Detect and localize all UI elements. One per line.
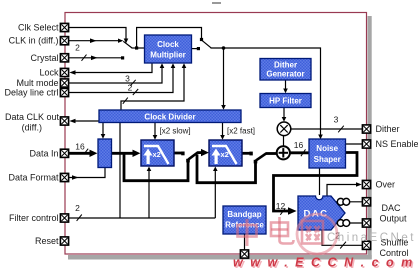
- wire: noise shaper to DAC: [319, 169, 321, 196]
- switch S3 (filter1 bypass): [188, 149, 209, 160]
- bus: filter1 bypass loop: [124, 154, 190, 180]
- block: interpolation filter 2 [x2 fast]: [209, 140, 242, 166]
- pin: Data CLK out: [60, 117, 68, 125]
- svg-text:CLK in (diff.): CLK in (diff.): [9, 36, 59, 46]
- wire: Clk Select to switch control: [69, 28, 128, 44]
- svg-text:Data CLK out: Data CLK out: [5, 112, 60, 122]
- svg-text:x2: x2: [153, 150, 161, 159]
- DAC output symbol 2: [337, 220, 349, 227]
- pin: Delay line ctrl: [60, 88, 68, 96]
- wire: filter control riser to divider: [119, 123, 121, 219]
- wire: dither generator to HP filter: [283, 81, 288, 94]
- watermark chinese char wang: [302, 221, 323, 244]
- wire: Filter control line: [69, 203, 215, 221]
- svg-text:Reset: Reset: [35, 236, 59, 246]
- pin: DAC Output 2: [362, 219, 370, 227]
- svg-text:Multiplier: Multiplier: [150, 51, 186, 60]
- watermark chinese char zhong: [238, 219, 257, 246]
- watermark seal circle: [297, 214, 337, 254]
- wire: bandgap to bottom pin: [244, 235, 246, 251]
- pin: Clk Select: [60, 23, 68, 31]
- wire: NS Enable: [346, 143, 363, 145]
- svg-text:Output: Output: [380, 214, 408, 224]
- svg-text:Noise: Noise: [316, 144, 338, 153]
- svg-text:Shaper: Shaper: [314, 155, 341, 164]
- border shadow right: [368, 16, 372, 259]
- svg-text:Filter control: Filter control: [9, 213, 59, 223]
- wire: filter control riser to filter2: [213, 167, 218, 219]
- block: Bandgap Reference: [223, 206, 266, 234]
- svg-text:ChinaECNet: ChinaECNet: [327, 232, 416, 244]
- wire: [x2 fast] clock drop: [220, 123, 255, 140]
- wire: Crystal to switch contact: [69, 43, 124, 61]
- switch S1 (clock source select): [123, 41, 144, 49]
- svg-text:2: 2: [75, 43, 80, 53]
- block: Noise Shaper: [309, 139, 346, 168]
- node: clock divider tap: [222, 46, 226, 50]
- wire: Dither pin line: [291, 115, 362, 133]
- bus: latch to filter1: [112, 150, 141, 157]
- pin: bandgap bottom: [240, 250, 248, 258]
- svg-text:Clock: Clock: [157, 40, 179, 49]
- pin: Over: [362, 180, 370, 188]
- svg-text:NS Enable: NS Enable: [376, 139, 418, 149]
- pin: DAC Output 1: [362, 198, 370, 206]
- border shadow bottom: [68, 255, 372, 260]
- svg-text:Dither: Dither: [274, 61, 297, 70]
- block: HP Filter: [260, 94, 311, 108]
- wire: Shuffle Control: [322, 231, 362, 249]
- svg-text:Bandgap: Bandgap: [227, 210, 261, 219]
- svg-text:HP Filter: HP Filter: [269, 97, 302, 106]
- wire: divider clock to input latch: [101, 123, 106, 139]
- pin: Dither: [362, 125, 370, 133]
- block: input latch: [98, 139, 112, 168]
- wire: HP filter to multiplier node: [282, 108, 287, 122]
- pin: NS Enable: [362, 140, 370, 148]
- switch S4 (filter2 bypass): [256, 153, 277, 160]
- block: Clock Multiplier: [145, 35, 192, 63]
- block: interpolation filter 1 [x2 slow]: [141, 140, 174, 166]
- top small dash: [212, 2, 221, 4]
- node: bypass contact: [200, 38, 203, 41]
- pin: Data Format: [60, 173, 68, 181]
- svg-text:Mult mode: Mult mode: [16, 78, 58, 88]
- wire: filter control riser to filter1: [147, 167, 152, 219]
- watermark chinese char dian: [271, 217, 294, 244]
- bus: noise shaper feedback to DAC: [274, 153, 358, 215]
- wire: clock tap down to divider: [221, 48, 226, 110]
- bus: filter2 bypass loop: [197, 154, 257, 182]
- switch S2 (multiplier bypass select): [192, 40, 212, 50]
- bus: filter2 output stub: [242, 152, 253, 156]
- multiplier node (dither): [277, 122, 291, 136]
- svg-text:16: 16: [75, 141, 85, 151]
- svg-text:DAC: DAC: [382, 203, 402, 213]
- DAC output symbol 1: [337, 198, 349, 205]
- wire: divider to multiplier feedback: [121, 63, 186, 110]
- svg-text:(diff.): (diff.): [22, 123, 42, 133]
- svg-text:3: 3: [334, 115, 339, 125]
- wire: Mult mode to multiplier: [69, 63, 164, 86]
- svg-text:Dither: Dither: [376, 124, 400, 134]
- bus: filter1 output stub: [174, 152, 185, 156]
- svg-text:Crystal: Crystal: [30, 53, 58, 63]
- svg-text:Clock Divider: Clock Divider: [144, 112, 195, 121]
- chip border frame: [65, 13, 367, 255]
- svg-text:Lock: Lock: [39, 68, 59, 78]
- bus: adder to noise shaper: [290, 140, 309, 156]
- svg-text:2: 2: [128, 83, 133, 93]
- wire: Over output: [327, 182, 362, 195]
- wire: Lock output from multiplier: [69, 63, 152, 75]
- pin: CLK in: [60, 37, 68, 45]
- block: DAC: [298, 196, 345, 230]
- svg-text:www.ECCN.com: www.ECCN.com: [233, 256, 418, 270]
- adder node: [277, 146, 290, 159]
- svg-text:Delay line ctrl: Delay line ctrl: [4, 88, 58, 98]
- pin: Filter control: [60, 214, 68, 222]
- wire: Data CLK out from divider: [69, 119, 99, 124]
- svg-text:Data Format: Data Format: [8, 173, 59, 183]
- svg-text:Over: Over: [376, 180, 396, 190]
- pin: Shuffle Control: [362, 241, 370, 249]
- bus: Data In input: [69, 141, 97, 157]
- svg-text:Data In: Data In: [29, 148, 58, 158]
- wire: [x2 slow] clock drop: [153, 123, 191, 140]
- svg-text:Clk Select: Clk Select: [18, 23, 59, 33]
- block: Clock Divider: [99, 110, 241, 123]
- pin: Crystal: [60, 54, 68, 62]
- pin: Lock: [60, 68, 68, 76]
- svg-text:x2: x2: [221, 150, 229, 159]
- svg-text:[x2 slow]: [x2 slow]: [160, 127, 191, 136]
- svg-text:2: 2: [75, 203, 80, 213]
- wire: Data Format into latch: [69, 168, 105, 180]
- wire: DAC output 1: [336, 201, 362, 203]
- block: Dither Generator: [260, 59, 311, 81]
- svg-text:Generator: Generator: [266, 70, 304, 79]
- pin: Reset: [60, 237, 68, 245]
- wire: master clock line to noise shaper: [211, 48, 323, 139]
- wire: DAC output 2: [336, 222, 362, 224]
- svg-text:16: 16: [294, 140, 304, 150]
- svg-text:[x2 fast]: [x2 fast]: [227, 127, 255, 136]
- wire: Delay line ctrl to multiplier: [69, 63, 175, 95]
- pin: Mult mode: [60, 79, 68, 87]
- wire: multiplier bypass over the top: [137, 28, 202, 49]
- wire: CLK in to switch contact: [69, 38, 123, 43]
- pin: Data In: [60, 149, 68, 157]
- wire: dither multiplier to adder: [283, 136, 285, 146]
